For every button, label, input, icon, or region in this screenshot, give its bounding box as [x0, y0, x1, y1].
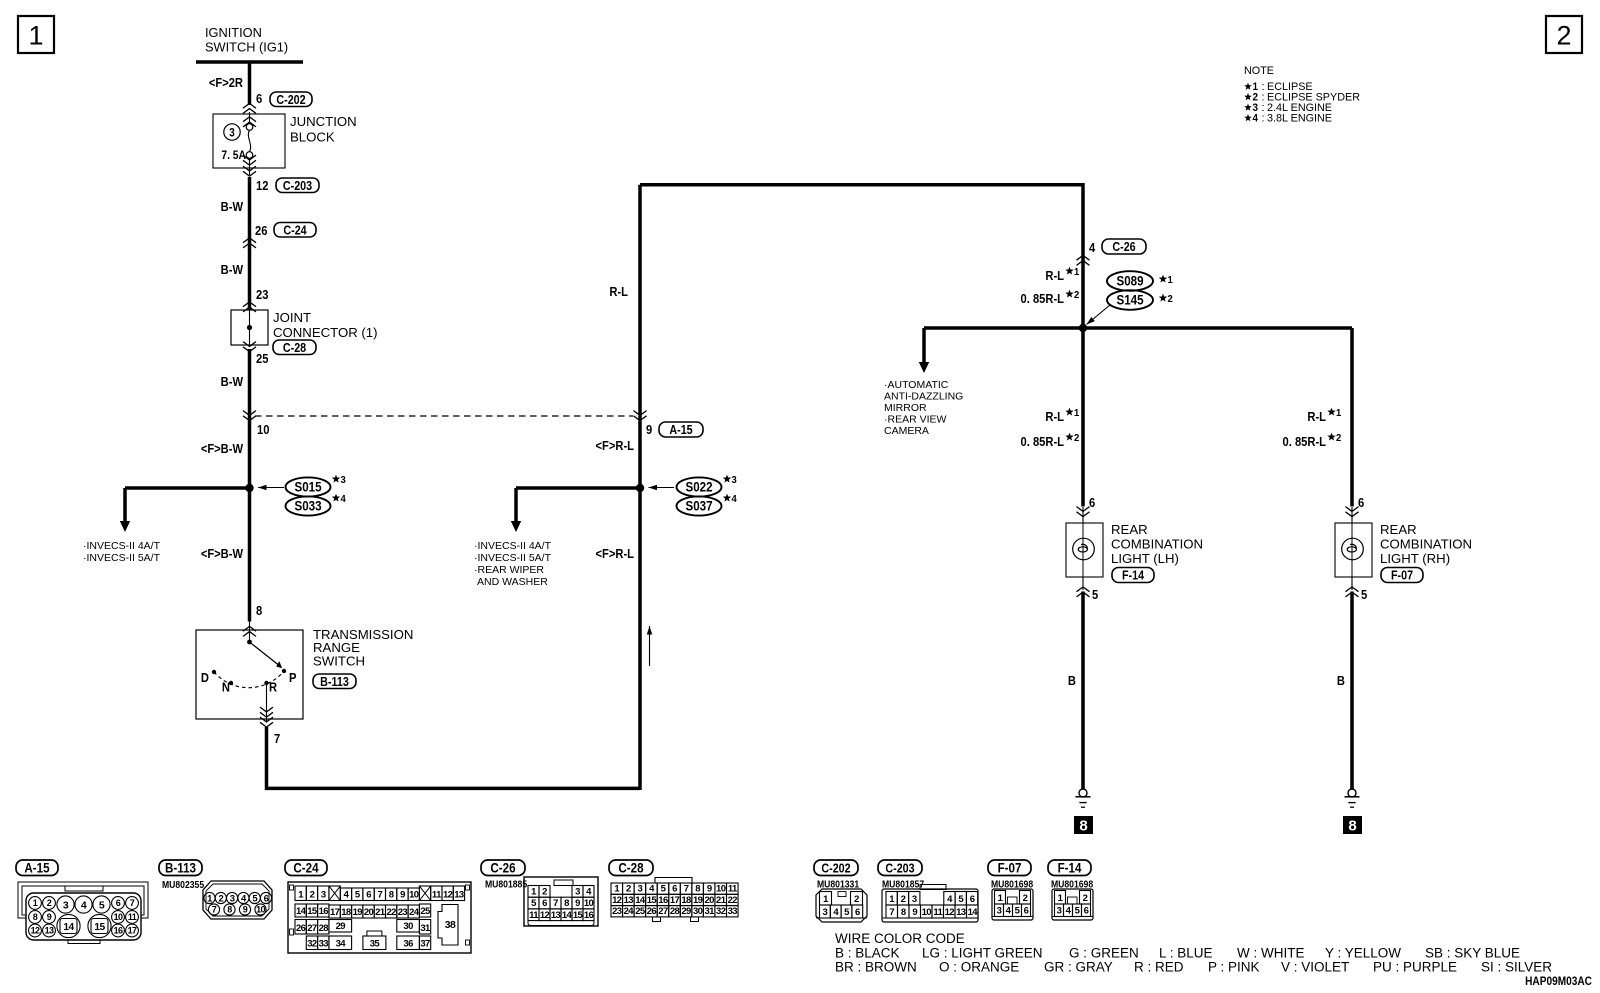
A-15 pins row 3 — [29, 924, 42, 937]
svg-text:1: 1 — [1074, 408, 1080, 420]
svg-text:W : WHITE: W : WHITE — [1237, 946, 1305, 961]
A-15 pins row 2 — [29, 911, 42, 924]
svg-text:10: 10 — [256, 905, 265, 915]
svg-text:9: 9 — [646, 422, 652, 437]
svg-text:27: 27 — [658, 906, 668, 917]
wire R-L to RH light — [1350, 328, 1354, 507]
C-26 pins row 3 — [528, 909, 539, 921]
svg-text:4: 4 — [1253, 113, 1259, 125]
connector view C-28 label — [609, 860, 653, 876]
svg-text:1: 1 — [28, 21, 43, 51]
svg-text:2: 2 — [47, 898, 52, 908]
svg-text:36: 36 — [403, 939, 413, 950]
svg-text:2: 2 — [542, 886, 547, 897]
connector A-15 chevron on B-W wire — [243, 411, 256, 421]
rear combination light LH box — [1066, 523, 1103, 577]
svg-text:R-L: R-L — [609, 284, 628, 299]
svg-text:8: 8 — [1348, 818, 1356, 835]
svg-text:F-14: F-14 — [1058, 861, 1082, 876]
svg-text:R-L: R-L — [1045, 268, 1064, 283]
svg-text:·AUTOMATIC: ·AUTOMATIC — [884, 379, 949, 391]
connector view A-15 label — [16, 860, 58, 876]
svg-text:SI : SILVER: SI : SILVER — [1481, 960, 1552, 975]
svg-text:19: 19 — [353, 907, 363, 918]
C-28 pins row 2 — [611, 894, 623, 905]
svg-text:·REAR VIEW: ·REAR VIEW — [884, 414, 947, 426]
wire <F>2R from ignition switch — [248, 62, 252, 105]
svg-text:0. 85R-L: 0. 85R-L — [1283, 434, 1327, 449]
connector view C-202 label — [814, 860, 858, 876]
svg-text:13: 13 — [624, 895, 634, 906]
svg-text:12: 12 — [31, 926, 40, 936]
svg-text:8: 8 — [1079, 818, 1087, 835]
svg-text:B-W: B-W — [221, 199, 244, 214]
B-113 pins row 2 — [208, 904, 219, 915]
svg-text:COMBINATION: COMBINATION — [1380, 537, 1472, 552]
A-15 pins row 1 — [29, 897, 42, 910]
svg-text:20: 20 — [364, 907, 374, 918]
svg-text:1: 1 — [1168, 275, 1174, 287]
svg-text:S015: S015 — [294, 480, 321, 495]
fuse 3 7.5A — [249, 112, 251, 124]
svg-text:ANTI-DAZZLING: ANTI-DAZZLING — [884, 391, 963, 403]
connector A-15 chevron on R-L wire — [634, 411, 647, 421]
svg-text:9: 9 — [243, 905, 248, 915]
svg-text:23: 23 — [256, 287, 269, 302]
svg-text:LIGHT (RH): LIGHT (RH) — [1380, 551, 1450, 566]
F-14 pins row 1 — [1055, 891, 1066, 905]
svg-text:15: 15 — [307, 906, 318, 917]
svg-text:11: 11 — [529, 910, 539, 921]
svg-text:B-113: B-113 — [165, 861, 196, 876]
svg-text:C-28: C-28 — [618, 861, 643, 876]
svg-text:SWITCH: SWITCH — [313, 654, 365, 669]
connector view F-14 label — [1048, 860, 1091, 876]
svg-text:3: 3 — [638, 884, 643, 895]
svg-text:13: 13 — [956, 907, 966, 918]
A-15 pin 15 — [88, 914, 111, 937]
connector view C-26 label — [481, 860, 525, 876]
svg-text:0. 85R-L: 0. 85R-L — [1021, 434, 1065, 449]
svg-text:4: 4 — [1089, 240, 1095, 255]
svg-text:8: 8 — [256, 603, 262, 618]
svg-text:LG : LIGHT GREEN: LG : LIGHT GREEN — [922, 946, 1043, 961]
svg-text:S037: S037 — [685, 499, 712, 514]
C-202 pins row 2 — [820, 905, 831, 918]
pin 5 LH light — [1082, 577, 1084, 590]
svg-text:16: 16 — [319, 906, 329, 917]
svg-text:P : PINK: P : PINK — [1208, 960, 1260, 975]
svg-text:17: 17 — [670, 895, 680, 906]
svg-text:IGNITION: IGNITION — [205, 25, 262, 40]
connector view C-202 body — [816, 889, 867, 922]
svg-text:11: 11 — [128, 912, 137, 922]
connector view C-203 body — [882, 889, 978, 922]
svg-text:BR : BROWN: BR : BROWN — [835, 960, 917, 975]
svg-text:<F>B-W: <F>B-W — [201, 441, 244, 456]
svg-text:NOTE: NOTE — [1244, 65, 1274, 77]
svg-text:3: 3 — [912, 894, 917, 905]
svg-text:B-W: B-W — [221, 262, 244, 277]
splice S015 — [286, 477, 331, 496]
splice S145 — [1107, 290, 1153, 310]
svg-text:C-203: C-203 — [885, 862, 915, 876]
connector view C-24 body — [288, 882, 471, 953]
svg-text:C-28: C-28 — [283, 341, 307, 355]
svg-text:F-07: F-07 — [998, 861, 1022, 876]
branch arrow to mirror/camera — [922, 328, 926, 363]
connector view C-28 body — [655, 878, 692, 884]
svg-text:26: 26 — [255, 223, 268, 238]
svg-text:13: 13 — [454, 890, 464, 901]
svg-text:10: 10 — [257, 422, 270, 437]
svg-text:12: 12 — [540, 910, 550, 921]
svg-text:3: 3 — [63, 899, 69, 911]
svg-text:2: 2 — [1336, 433, 1342, 445]
svg-text:14: 14 — [296, 906, 307, 917]
junction block box — [213, 114, 285, 168]
svg-text:<F>R-L: <F>R-L — [596, 438, 635, 453]
svg-text:6: 6 — [366, 890, 371, 901]
F-07 pins row 2 — [995, 904, 1004, 917]
svg-text:8: 8 — [33, 912, 38, 922]
svg-text:33: 33 — [319, 939, 329, 950]
svg-text:F-14: F-14 — [1122, 569, 1145, 583]
svg-text:B: B — [1068, 673, 1076, 688]
svg-text:6: 6 — [264, 893, 269, 904]
svg-text:WIRE COLOR CODE: WIRE COLOR CODE — [835, 931, 965, 946]
svg-text:C-202: C-202 — [276, 93, 306, 107]
sheet marker 2 — [1546, 16, 1582, 53]
bulb symbol LH — [1073, 538, 1095, 560]
svg-text:REAR: REAR — [1380, 522, 1417, 537]
svg-text:<F>B-W: <F>B-W — [201, 546, 244, 561]
wire run from pin 7 to middle riser — [267, 727, 641, 788]
svg-text:C-203: C-203 — [283, 179, 313, 193]
svg-text:4: 4 — [732, 494, 738, 506]
svg-text:9: 9 — [912, 907, 917, 918]
svg-text:23: 23 — [612, 906, 622, 917]
svg-text:5: 5 — [1361, 587, 1367, 602]
splice S022 — [677, 477, 722, 496]
connector view F-07 label — [988, 860, 1031, 876]
svg-text:12: 12 — [443, 890, 453, 901]
svg-text:21: 21 — [716, 895, 727, 906]
svg-text:8: 8 — [695, 884, 700, 895]
svg-text:37: 37 — [420, 939, 430, 950]
svg-text:7. 5A: 7. 5A — [221, 149, 246, 162]
svg-text:3: 3 — [341, 475, 347, 487]
svg-text:COMBINATION: COMBINATION — [1111, 537, 1203, 552]
svg-text:34: 34 — [336, 939, 347, 950]
svg-text:MU802355: MU802355 — [162, 880, 204, 891]
svg-text:REAR: REAR — [1111, 522, 1148, 537]
svg-text:29: 29 — [681, 906, 691, 917]
svg-text:3: 3 — [732, 475, 738, 487]
svg-text:·INVECS-II 4A/T: ·INVECS-II 4A/T — [83, 540, 161, 552]
wire B RH — [1350, 592, 1354, 790]
svg-text:18: 18 — [681, 895, 691, 906]
C-24 pins row 2 — [295, 904, 306, 917]
svg-text:PU : PURPLE: PU : PURPLE — [1373, 960, 1457, 975]
junction block exit chevrons — [249, 158, 251, 175]
pin 5 RH light — [1351, 577, 1353, 590]
svg-text:24: 24 — [624, 906, 635, 917]
svg-text:C-24: C-24 — [283, 224, 307, 238]
svg-text:C-202: C-202 — [821, 862, 851, 876]
svg-text:2: 2 — [1556, 21, 1571, 51]
svg-text:SB : SKY BLUE: SB : SKY BLUE — [1425, 946, 1520, 961]
svg-text:6: 6 — [970, 894, 975, 905]
svg-text:31: 31 — [420, 923, 431, 934]
svg-text:S022: S022 — [685, 480, 712, 495]
svg-text:2: 2 — [1074, 290, 1080, 302]
svg-text:2: 2 — [854, 894, 859, 905]
wire B-W segment 3 — [248, 349, 252, 622]
arrow from S145 to junction node — [1087, 305, 1111, 325]
C-203 pins row 1 — [886, 892, 897, 906]
svg-text:R: R — [269, 680, 277, 695]
svg-text:7: 7 — [274, 731, 280, 746]
svg-text:LIGHT (LH): LIGHT (LH) — [1111, 551, 1179, 566]
C-24 pins row 4 — [306, 936, 317, 950]
svg-text:3: 3 — [575, 886, 580, 897]
svg-text:9: 9 — [400, 890, 405, 901]
svg-text:5: 5 — [1092, 587, 1098, 602]
svg-text:·INVECS-II 5A/T: ·INVECS-II 5A/T — [474, 552, 552, 564]
svg-text:O : ORANGE: O : ORANGE — [939, 960, 1019, 975]
wire B-W segment 2 — [248, 241, 252, 310]
svg-text:33: 33 — [728, 906, 738, 917]
svg-text:S145: S145 — [1116, 293, 1143, 308]
svg-text:MU801885: MU801885 — [485, 879, 527, 890]
svg-text:29: 29 — [336, 921, 346, 932]
bulb symbol RH — [1342, 538, 1364, 560]
svg-text:20: 20 — [704, 895, 714, 906]
ground RH — [1345, 789, 1360, 807]
svg-text:10: 10 — [922, 907, 932, 918]
transmission range switch box — [196, 630, 303, 719]
svg-text:14: 14 — [635, 895, 646, 906]
svg-text:L : BLUE: L : BLUE — [1159, 946, 1213, 961]
svg-text:25: 25 — [256, 351, 269, 366]
svg-text:16: 16 — [658, 895, 668, 906]
svg-text:N: N — [222, 680, 230, 695]
junction node dot — [1079, 324, 1087, 332]
svg-text:24: 24 — [409, 907, 420, 918]
splice S033 — [286, 496, 331, 515]
transmission range switch R output — [266, 685, 268, 722]
wire R-L middle riser — [638, 185, 642, 790]
connector view C-26 body — [524, 877, 598, 926]
joint connector label C-28 — [273, 340, 316, 355]
svg-text:3: 3 — [1057, 906, 1062, 917]
svg-text:R : RED: R : RED — [1134, 960, 1184, 975]
svg-text:31: 31 — [704, 906, 715, 917]
svg-text:9: 9 — [707, 884, 712, 895]
svg-text:2: 2 — [1023, 893, 1028, 904]
svg-text:MU801331: MU801331 — [817, 879, 859, 890]
B-113 pins row 1 — [204, 892, 215, 903]
splice node S022/S037 junction dot — [636, 484, 644, 492]
svg-text:7: 7 — [212, 905, 217, 915]
connector view B-113 body — [203, 881, 272, 919]
svg-text:<F>R-L: <F>R-L — [596, 546, 635, 561]
svg-text:0. 85R-L: 0. 85R-L — [1021, 291, 1065, 306]
C-24 pin 38 — [438, 905, 458, 946]
svg-text:32: 32 — [307, 939, 317, 950]
svg-text:15: 15 — [94, 922, 105, 933]
svg-text:8: 8 — [227, 905, 232, 915]
svg-text:12: 12 — [256, 178, 269, 193]
svg-text:6: 6 — [542, 898, 547, 909]
current direction arrow — [649, 626, 651, 666]
svg-text:8: 8 — [564, 898, 569, 909]
svg-text:3: 3 — [321, 890, 326, 901]
C-203 pins row 2 — [886, 905, 898, 918]
connector view F-07 body — [992, 889, 1033, 920]
svg-text:2: 2 — [1083, 893, 1088, 904]
svg-text:16: 16 — [584, 910, 594, 921]
svg-text:JUNCTION: JUNCTION — [290, 114, 357, 129]
svg-text:·INVECS-II 5A/T: ·INVECS-II 5A/T — [83, 552, 161, 564]
F-14 pins row 2 — [1055, 904, 1064, 917]
svg-text:12: 12 — [612, 895, 622, 906]
svg-text:6: 6 — [855, 907, 860, 918]
svg-text:C-24: C-24 — [293, 861, 318, 876]
svg-text:30: 30 — [403, 921, 413, 932]
svg-text:CAMERA: CAMERA — [884, 425, 929, 437]
svg-text:28: 28 — [670, 906, 680, 917]
svg-text:2: 2 — [310, 890, 315, 901]
svg-text:F-07: F-07 — [1391, 569, 1413, 583]
svg-text:MU801857: MU801857 — [882, 879, 924, 890]
svg-text:B: B — [1337, 673, 1345, 688]
svg-text:26: 26 — [296, 923, 306, 934]
splice node S015/S033 junction dot — [245, 484, 253, 492]
svg-text:A-15: A-15 — [669, 423, 693, 437]
svg-text:1: 1 — [1074, 267, 1080, 279]
svg-text:D: D — [201, 670, 209, 685]
svg-text:6: 6 — [256, 91, 262, 106]
connector view C-24 label — [285, 860, 327, 876]
svg-text:9: 9 — [47, 912, 52, 922]
connector view A-15 body — [18, 882, 148, 918]
svg-text:19: 19 — [693, 895, 703, 906]
A-15 pin 14 — [57, 914, 80, 937]
svg-text:12: 12 — [945, 907, 955, 918]
svg-text:3: 3 — [230, 893, 235, 904]
svg-text:10: 10 — [409, 890, 419, 901]
svg-text:C-26: C-26 — [490, 861, 515, 876]
C-24 pins row 3 — [295, 920, 306, 935]
svg-text:38: 38 — [445, 919, 456, 931]
svg-text:3: 3 — [229, 127, 235, 140]
svg-text:15: 15 — [573, 910, 584, 921]
connector view C-203 label — [878, 860, 922, 876]
svg-text:C-26: C-26 — [1112, 240, 1136, 254]
svg-text:10: 10 — [584, 898, 594, 909]
svg-text:10: 10 — [716, 884, 726, 895]
svg-text:2: 2 — [1074, 433, 1080, 445]
svg-text:A-15: A-15 — [24, 861, 49, 876]
svg-text:35: 35 — [370, 939, 381, 950]
svg-text:R-L: R-L — [1045, 409, 1064, 424]
sheet marker 1 — [18, 16, 54, 53]
svg-text:6: 6 — [1089, 495, 1095, 510]
svg-text:2: 2 — [1168, 294, 1174, 306]
svg-text:AND WASHER: AND WASHER — [477, 576, 548, 588]
ground ref 8 LH — [1074, 816, 1093, 834]
svg-text:·INVECS-II 4A/T: ·INVECS-II 4A/T — [474, 540, 552, 552]
svg-text:6: 6 — [672, 884, 677, 895]
svg-text:3: 3 — [823, 907, 828, 918]
svg-text:G : GREEN: G : GREEN — [1069, 946, 1139, 961]
wire run across to rear lights — [924, 326, 1352, 330]
dashed connector line A-15 — [255, 415, 633, 417]
splice S037 — [677, 496, 722, 515]
svg-text:S033: S033 — [294, 499, 321, 514]
svg-text:14: 14 — [63, 922, 74, 933]
rear combination light RH box — [1335, 523, 1372, 577]
svg-text:MU801698: MU801698 — [1051, 879, 1093, 890]
svg-text:7: 7 — [378, 890, 383, 901]
svg-text:5: 5 — [99, 899, 105, 911]
svg-text:SWITCH (IG1): SWITCH (IG1) — [205, 40, 288, 55]
svg-text:<F>2R: <F>2R — [209, 75, 243, 90]
C-28 pins row 3 — [611, 906, 623, 917]
svg-text:MIRROR: MIRROR — [884, 402, 927, 414]
svg-text:8: 8 — [901, 907, 906, 918]
svg-text:4: 4 — [81, 899, 87, 911]
svg-text:14: 14 — [562, 910, 573, 921]
branch wire to INVECS (middle) — [516, 486, 640, 490]
arrow from S022 to node — [649, 487, 675, 489]
svg-text:26: 26 — [647, 906, 657, 917]
svg-text:9: 9 — [575, 898, 580, 909]
wire B LH — [1081, 592, 1085, 790]
svg-text:B-113: B-113 — [320, 675, 349, 689]
svg-text:17: 17 — [330, 907, 340, 918]
branch wire to INVECS (left) — [125, 486, 250, 490]
svg-text:32: 32 — [716, 906, 726, 917]
svg-text:4: 4 — [341, 494, 347, 506]
svg-text:11: 11 — [728, 884, 738, 895]
svg-text:8: 8 — [389, 890, 394, 901]
svg-text:6: 6 — [1024, 906, 1029, 917]
svg-text:23: 23 — [398, 907, 408, 918]
svg-text:Y : YELLOW: Y : YELLOW — [1325, 946, 1401, 961]
arrow from S015 to node — [258, 487, 284, 489]
svg-text:3.8L ENGINE: 3.8L ENGINE — [1267, 113, 1332, 125]
svg-text:2: 2 — [218, 893, 223, 904]
svg-text:MU801698: MU801698 — [991, 879, 1033, 890]
svg-text:22: 22 — [728, 895, 738, 906]
svg-text:27: 27 — [307, 923, 317, 934]
svg-text:2: 2 — [901, 894, 906, 905]
ground ref 8 RH — [1343, 816, 1362, 834]
svg-text:3: 3 — [997, 906, 1002, 917]
svg-text:S089: S089 — [1116, 274, 1143, 289]
C-202 pins row 1 — [820, 892, 832, 906]
transmission range switch contacts — [247, 640, 252, 645]
svg-text:22: 22 — [386, 907, 396, 918]
svg-text:11: 11 — [432, 890, 442, 901]
svg-text:10: 10 — [114, 912, 123, 922]
svg-text:21: 21 — [375, 907, 386, 918]
svg-text:JOINT: JOINT — [273, 310, 311, 325]
C-28 pins row 1 — [611, 883, 623, 894]
